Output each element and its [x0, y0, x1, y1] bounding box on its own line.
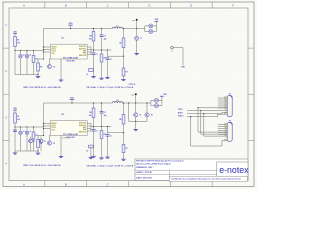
ground right column 2 circuit 1 — [99, 77, 103, 79]
svg-text:E: E — [190, 4, 192, 8]
diode pair D2a — [151, 98, 162, 102]
svg-text:F: F — [232, 4, 234, 8]
svg-text:ms: ms — [132, 20, 135, 22]
wire ground bus circuit 2 — [15, 127, 39, 152]
diode D22 — [25, 127, 31, 151]
ground C2x — [13, 151, 17, 154]
svg-text:RB7/PGD: RB7/PGD — [79, 123, 87, 125]
svg-text:R4: R4 — [89, 35, 91, 38]
label net RXD — [178, 112, 183, 114]
svg-text:10k: 10k — [89, 115, 92, 117]
svg-text:L2: L2 — [116, 100, 118, 102]
svg-text:Confidential: do not duplicate: Confidential: do not duplicate this proj… — [171, 178, 241, 181]
wire R28 to ground — [90, 147, 92, 156]
svg-text:+5: +5 — [23, 55, 25, 57]
svg-text:+5: +5 — [29, 55, 31, 57]
svg-text:T5: T5 — [33, 141, 35, 143]
svg-text:PIC 16F84 A-04P: PIC 16F84 A-04P — [63, 57, 79, 60]
ground far right circuit 1 — [121, 78, 125, 80]
svg-text:OSC1: OSC1 — [51, 125, 55, 127]
svg-text:dcd: dcd — [224, 123, 227, 125]
svg-text:B: B — [65, 4, 67, 8]
svg-text:X2: X2 — [229, 120, 231, 122]
svg-text:SHEET : PIC8 IB: SHEET : PIC8 IB — [136, 172, 152, 174]
svg-text:PIC 16F84 A-04P: PIC 16F84 A-04P — [63, 133, 79, 136]
svg-text:TXD1: TXD1 — [178, 109, 183, 111]
svg-text:R4: R4 — [89, 111, 91, 114]
transistor Q2x1 — [29, 137, 35, 152]
svg-text:VDD: VDD — [70, 97, 75, 99]
drawing frame — [3, 2, 254, 187]
diode pair D1a — [145, 24, 157, 28]
resistor R12 — [32, 51, 38, 75]
ground R28 — [89, 156, 93, 158]
svg-text:T3: T3 — [151, 115, 153, 117]
svg-text:+5: +5 — [29, 131, 31, 133]
transistor Q2x2 — [39, 137, 45, 152]
ground below U1 — [59, 79, 63, 81]
svg-text:L1: L1 — [116, 25, 118, 27]
svg-text:OSC2: OSC2 — [51, 51, 55, 53]
svg-text:A: A — [23, 4, 25, 8]
terminal TP1 — [171, 46, 174, 52]
svg-text:RB6/PGC: RB6/PGC — [79, 125, 87, 127]
wire pad MS2 down — [135, 95, 136, 113]
wire rail 2 left drop — [43, 103, 45, 136]
svg-text:B: B — [65, 182, 67, 186]
wire U1 right pin stubs — [87, 47, 91, 55]
resistor R16 — [119, 28, 125, 57]
svg-text:OSC2: OSC2 — [51, 127, 55, 129]
svg-text:RB5: RB5 — [83, 127, 86, 129]
resistor R13 — [37, 58, 45, 74]
svg-text:C: C — [107, 182, 109, 186]
wire feed net circuit 2 — [14, 126, 43, 127]
svg-text:dcd: dcd — [224, 97, 227, 99]
svg-text:T6: T6 — [44, 141, 46, 143]
svg-text:RB3/PGM: RB3/PGM — [79, 55, 87, 57]
ground circuit 2 left — [36, 152, 40, 154]
wire diode pair 2 frame — [151, 100, 162, 105]
svg-text:OSC1: OSC1 — [51, 48, 55, 50]
resistor R23 — [37, 135, 45, 151]
svg-text:TX2 1 B: TX2 1 B — [129, 84, 136, 86]
svg-text:R6: R6 — [119, 119, 121, 121]
svg-text:RXD1: RXD1 — [178, 112, 183, 114]
wire net TXD — [187, 110, 227, 111]
wire pad MS1 down — [136, 21, 137, 36]
wire U2 left pin stubs — [43, 123, 51, 129]
ground below U2 — [59, 155, 63, 157]
resistor R14 — [89, 28, 95, 50]
svg-text:R2: R2 — [36, 59, 38, 61]
connector X1 — [218, 94, 232, 117]
capacitor C2x bus — [13, 130, 17, 132]
svg-text:IC DIP-18P: IC DIP-18P — [62, 138, 71, 140]
svg-text:10k: 10k — [89, 38, 92, 40]
svg-text:RB5: RB5 — [83, 51, 86, 53]
resistor R21 with supply stub — [13, 108, 20, 127]
svg-text:A: A — [23, 182, 25, 186]
ground sub-circuit 2 — [134, 128, 138, 130]
power VDD rail 2 symbol — [70, 97, 75, 103]
note text circuit 1 left — [24, 86, 62, 89]
wire DTR to X2 — [197, 107, 227, 132]
diode pair D1b — [145, 30, 157, 34]
microcontroller U2 PIC16F84 — [50, 114, 87, 136]
wire RXD to X2 — [204, 114, 227, 136]
connector X2 — [218, 120, 232, 141]
svg-text:C3: C3 — [110, 135, 112, 137]
wire net DTR — [198, 107, 227, 109]
wire U1 left pin stubs — [43, 46, 51, 52]
svg-text:10k: 10k — [17, 42, 20, 44]
wire U1 ground pin — [61, 58, 75, 79]
svg-text:RB7/PGD: RB7/PGD — [79, 46, 87, 48]
svg-text:C: C — [107, 4, 109, 8]
svg-text:10k: 10k — [17, 119, 20, 121]
label net TXD — [178, 109, 183, 111]
svg-text:MCLR 4V7: MCLR 4V7 — [67, 59, 75, 62]
svg-text:T4: T4 — [53, 142, 55, 145]
wire sub2 to ground — [135, 121, 137, 128]
resistor R27 — [122, 133, 128, 158]
wire rail to diode pair 1 — [137, 28, 145, 30]
svg-text:X1: X1 — [229, 94, 231, 96]
ground far right circuit 2 — [121, 158, 125, 160]
inductor L2 — [113, 100, 123, 103]
capacitor C21 — [92, 127, 98, 156]
svg-text:R1: R1 — [17, 40, 19, 42]
svg-text:C3: C3 — [110, 59, 112, 61]
label net TP1 — [181, 67, 186, 69]
inductor L1 — [113, 25, 123, 28]
label IC2 package — [62, 138, 71, 140]
svg-text:R2: R2 — [36, 135, 38, 137]
resistor R25 — [100, 127, 106, 157]
ground right column 1 circuit 1 — [91, 75, 95, 77]
resistor R17 — [122, 56, 128, 78]
wire U2 right pin stubs — [87, 124, 91, 132]
label net RX2 — [129, 84, 136, 86]
resistor R24 — [89, 102, 95, 126]
transistor Q3s — [145, 113, 153, 117]
svg-text:ms: ms — [132, 95, 135, 97]
wire sub2 bottom — [128, 102, 147, 122]
wire net RXD — [187, 112, 227, 114]
ground right column 3 circuit 2 — [105, 156, 109, 158]
capacitor C22 — [100, 102, 107, 126]
svg-text:T2: T2 — [139, 115, 141, 117]
svg-text:+5: +5 — [23, 131, 25, 133]
svg-text:22p: 22p — [104, 38, 107, 40]
svg-text:R3: R3 — [40, 67, 42, 69]
transistor Q1a — [47, 58, 54, 68]
svg-text:PROJECT: DSP PIC Multi-Sample: PROJECT: DSP PIC Multi-Sample Processing… — [136, 160, 184, 163]
wire TXD to X2 — [201, 111, 227, 135]
microcontroller U1 PIC16F84 — [50, 37, 87, 59]
transistor Q1s — [135, 36, 143, 40]
svg-text:RB3/PGM: RB3/PGM — [79, 131, 87, 133]
svg-text:gnd: gnd — [224, 113, 227, 115]
ground right column 3 circuit 1 — [105, 76, 109, 78]
svg-text:RESET: RESET — [51, 123, 56, 125]
svg-text:RES1 1 10K / MCLR 4 0.1C + OSC: RES1 1 10K / MCLR 4 0.1C + OSC 4 MHz 1B — [24, 164, 62, 167]
title block — [135, 159, 249, 181]
wire top VDD rail 1 — [44, 28, 137, 30]
svg-text:1k: 1k — [86, 150, 88, 152]
resistor R26 — [119, 102, 125, 133]
wire feed net circuit 1 — [14, 50, 43, 51]
resistor R22 — [32, 127, 38, 151]
svg-text:RESET: RESET — [51, 46, 56, 48]
wire top VDD rail 2 — [44, 102, 137, 104]
wire ground bus circuit 1 — [15, 51, 39, 76]
svg-text:R5: R5 — [104, 134, 106, 136]
ground right column 1 circuit 2 — [91, 155, 95, 157]
svg-text:GND 0: GND 0 — [178, 115, 184, 117]
svg-text:R7: R7 — [126, 72, 128, 74]
svg-text:C1: C1 — [96, 130, 98, 132]
svg-text:(Atmensis) PIC-uSPIM Power Dig: (Atmensis) PIC-uSPIM Power Digital — [136, 163, 171, 166]
diode pair D2b — [151, 104, 162, 108]
capacitor C12 — [100, 28, 107, 50]
wire Q1s emitter — [136, 41, 138, 53]
svg-text:1k: 1k — [86, 74, 88, 76]
wire diode pair 1 frame — [145, 26, 157, 32]
label net GND2 — [178, 115, 184, 117]
svg-text:C2: C2 — [104, 112, 106, 114]
svg-text:C1: C1 — [96, 54, 98, 56]
wire rail to diode pair 2 — [137, 102, 151, 104]
diode D12 — [25, 51, 31, 75]
pad MS1 — [132, 19, 137, 22]
svg-text:DRAWN BY: NSC: DRAWN BY: NSC — [136, 166, 153, 169]
svg-text:OSC 4 MHz + C 22 pF + C 22 pF: OSC 4 MHz + C 22 pF + C 22 pF + R 10K 1%… — [87, 164, 134, 167]
svg-text:R1: R1 — [17, 116, 19, 118]
wire TP1 — [173, 48, 183, 66]
svg-text:R6: R6 — [119, 43, 121, 45]
svg-text:22p: 22p — [104, 115, 107, 117]
ground right column 2 circuit 2 — [99, 157, 103, 159]
note text circuit 1 right — [87, 86, 134, 89]
wire rail 1 left drop — [43, 29, 45, 60]
resistor R28 — [86, 145, 93, 152]
svg-text:D: D — [148, 4, 150, 8]
svg-text:DATE: 2019/1/26: DATE: 2019/1/26 — [136, 176, 152, 179]
svg-text:T1: T1 — [140, 38, 142, 40]
svg-text:RES1 1 10K / MCLR 4 0.1C + OSC: RES1 1 10K / MCLR 4 0.1C + OSC 4 MHz 1B — [24, 86, 62, 89]
svg-text:e-notex: e-notex — [219, 165, 249, 175]
ground circuit 1 left — [36, 75, 40, 77]
capacitor C23 — [106, 127, 124, 156]
power VDD sub-circuit 2 — [160, 94, 168, 100]
wire net GND2 — [187, 114, 227, 117]
diode D11 — [19, 51, 25, 75]
svg-text:R7: R7 — [126, 148, 128, 150]
note text circuit 2 right — [87, 164, 134, 167]
wire U2 right bus — [91, 126, 111, 127]
note text circuit 2 left — [24, 164, 62, 167]
svg-text:C2: C2 — [104, 36, 106, 38]
resistor R11 with supply stub — [13, 31, 20, 50]
svg-text:RB6/PGC: RB6/PGC — [79, 48, 87, 50]
capacitor C13 — [106, 50, 124, 76]
svg-text:gnd: gnd — [224, 139, 227, 141]
power VDD sub-circuit 1 — [154, 19, 159, 26]
power VDD rail 1 symbol — [68, 23, 73, 29]
wire U2 ground pin — [61, 135, 75, 156]
pad MS2 — [132, 93, 137, 96]
wire U1 right bus — [91, 49, 111, 50]
transistor Q2a — [47, 135, 54, 145]
ground sub-circuit 1 — [135, 52, 139, 54]
wire Q3s collector — [146, 102, 147, 112]
diode D21 — [19, 127, 25, 151]
wire GND bus to X2 bottom — [190, 116, 227, 146]
resistor R18 — [86, 69, 93, 76]
capacitor C11 — [92, 50, 98, 75]
svg-text:T4: T4 — [53, 65, 55, 68]
transistor Q2s — [134, 113, 142, 117]
svg-text:VDD: VDD — [69, 23, 74, 25]
resistor R15 — [100, 50, 106, 77]
svg-text:R5: R5 — [104, 58, 106, 60]
svg-text:OSC 4 MHz + C 22 pF + C 22 pF: OSC 4 MHz + C 22 pF + C 22 pF + R 10K 1%… — [87, 86, 134, 89]
